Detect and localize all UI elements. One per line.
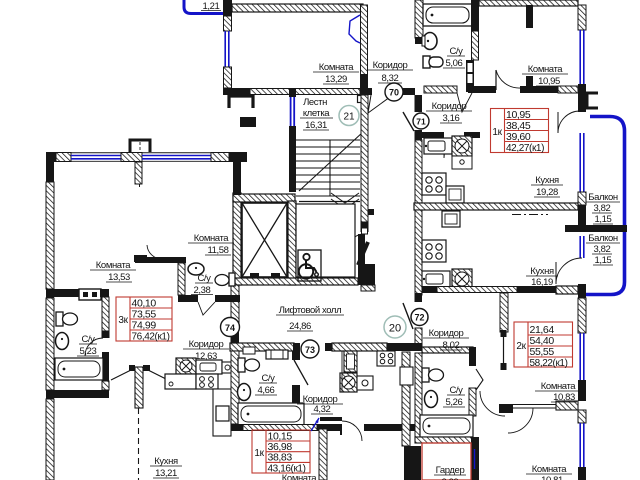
bathtub 5.26 [420,415,473,437]
svg-text:Кухня: Кухня [530,266,554,277]
wall between ap73 room and s/u 5.26 [402,352,410,446]
wall below elevator 1 (west side of hall) [231,285,239,330]
svg-text:1к: 1к [254,448,264,459]
svg-text:10,81: 10,81 [541,475,563,480]
wall right of table 1k [319,429,327,480]
partition to kitchen 13.21 [135,367,143,408]
svg-text:5,23: 5,23 [80,346,97,357]
svg-text:24,86: 24,86 [289,321,311,332]
svg-text:С/у: С/у [449,46,463,57]
svg-text:С/у: С/у [449,385,463,396]
svg-text:8,02: 8,02 [443,340,460,351]
door arc to room 10.95 [496,70,520,88]
svg-text:Коридор: Коридор [429,328,464,339]
stair break diagonal [299,132,363,191]
svg-text:3к: 3к [118,315,128,326]
wall under corridor 3.16 / s/u (y86) [424,86,457,93]
dash-dot line in kitchen 16.19 [512,214,548,216]
kitchen 19.28 sink unit [424,138,452,154]
top wall of left apartment [46,152,56,162]
thin wall + door bottom of corridor 4.32 [320,417,342,421]
svg-text:19,28: 19,28 [536,187,558,198]
balcony door frame [587,93,598,108]
top wall of 2k rooms (y286) [422,286,556,293]
stair direction arrows [331,193,359,209]
red table 1k top (apartment 21) [491,109,549,153]
svg-text:клетка: клетка [303,108,330,119]
wall pier left of room 13.29 [223,0,232,16]
wall pier below balcony door [578,284,586,298]
stove 4-burner ap73 [377,351,395,366]
circle 72 [411,309,428,326]
svg-text:1,15: 1,15 [595,255,612,266]
svg-text:1к: 1к [492,127,502,138]
svg-text:Кухня: Кухня [535,175,559,186]
svg-text:72: 72 [414,313,424,323]
red table 2k [514,322,573,367]
svg-text:38,83: 38,83 [268,452,293,464]
svg-text:Комната: Комната [282,473,318,480]
wall right of bathtub [471,0,479,31]
wall below bathtub [415,437,472,443]
left exterior wall [46,152,54,182]
bathtub 5.23 [55,358,103,380]
svg-text:Комната: Комната [96,260,132,271]
svg-text:10,83: 10,83 [553,392,575,403]
toilet 5.26 [422,368,429,382]
blue leader arrow from table 1k [311,418,319,431]
bottom wall of ap73 bath [231,424,342,431]
window room 10.95 [579,30,581,84]
svg-text:4,32: 4,32 [314,404,331,415]
door leaf from s/u 5.06 [457,93,472,112]
svg-text:Комната: Комната [319,62,355,73]
sink unit 16.19 [422,271,450,287]
towel radiator column [466,60,474,92]
balcony door arc (room 10.95) [558,111,580,133]
window kitchen 16.19 [579,236,581,258]
wall between s/u 5.06 and room 10.95 [526,5,533,28]
svg-text:3,82: 3,82 [594,203,611,214]
right wall with door [292,351,300,360]
stove unit 16.19 (hatched with X) [452,269,472,289]
svg-text:71: 71 [416,117,426,127]
sink 5.26 [425,391,438,408]
svg-text:Кухня: Кухня [154,456,178,467]
wall top of room 13.29 (hatched) [232,4,363,12]
bathroom 5.06 left wall [415,0,423,38]
circle 20 green [384,316,406,338]
elevator shaft walls (hatched) [233,193,241,285]
svg-text:Балкон: Балкон [588,192,618,203]
sink 4.66 [238,384,251,401]
left wall kitchen 16.19 [415,210,422,295]
kitchen 19.28 stove unit (hatched with X) [452,136,472,156]
elevator 2 cabin (accessible) [296,204,355,277]
window kitchen 19.28 [579,133,581,192]
balcony 1.21 rail (blue) [184,0,223,14]
svg-text:С/у: С/у [261,373,275,384]
svg-text:8,32: 8,32 [382,73,399,84]
divider wall between kitchens (y203) [414,203,578,210]
washbasin in 5.06 [423,33,437,50]
balcony rail (blue) upper start [584,117,625,295]
green circle 21 [339,106,359,126]
wall between room 13.29 and corridor 8.32 [361,5,368,88]
svg-text:13,53: 13,53 [108,272,130,283]
svg-text:11,58: 11,58 [207,245,228,256]
circle 74 [221,318,240,337]
red table 3k [116,297,172,341]
svg-text:10,95: 10,95 [538,76,560,87]
toilet in 5.06 [423,56,430,68]
balcony door arc (kitchen 16.19) [556,258,582,284]
circle 73 [301,340,319,358]
entry door frame (P-shape) below H2 [229,96,253,108]
svg-text:5,06: 5,06 [446,58,463,69]
left wall rooms [500,293,508,332]
stair treads [296,140,360,196]
svg-text:С/у: С/у [197,273,211,284]
svg-text:42,27(к1): 42,27(к1) [506,143,544,154]
svg-text:Коридор: Коридор [189,339,224,350]
stair right wall [361,95,368,222]
partition rooms 10.83/10.81 [499,404,513,413]
right wall lower: windows rooms [578,298,586,333]
circle 71 [413,113,429,129]
svg-text:58,22(к1): 58,22(к1) [530,358,568,369]
svg-text:Комната: Комната [194,233,230,244]
wall pier [578,192,586,205]
wall corridor3.16/kitchen divider [422,132,444,138]
svg-text:3,82: 3,82 [594,244,611,255]
svg-text:73: 73 [305,345,315,355]
svg-text:Лифтовой холл: Лифтовой холл [279,305,341,316]
svg-text:74,99: 74,99 [132,320,157,332]
svg-text:Комната: Комната [528,64,564,75]
wall pier [578,84,586,112]
balcony divider wall [565,225,627,232]
wall pier below window [224,67,232,88]
left wall [231,351,239,424]
door room 13.53 [147,245,162,259]
fridge 19.28 [446,186,464,203]
4-burner stove 16.19 [422,240,446,262]
fridge 16.19 [442,211,460,227]
door arcs [480,391,505,416]
svg-text:20: 20 [389,323,401,335]
svg-text:16,31: 16,31 [305,120,327,131]
counter return along corridor 12.63 [213,389,231,436]
svg-text:Лестн: Лестн [303,97,327,108]
svg-text:4,66: 4,66 [258,385,275,396]
toilet 4.66 [238,358,245,372]
svg-text:3,16: 3,16 [443,113,460,124]
svg-text:13,21: 13,21 [155,468,177,479]
svg-text:76,42(к1): 76,42(к1) [132,332,170,343]
black wall segment right of table 1k area [364,424,422,431]
chimney shaft above wall [130,140,150,152]
svg-text:74: 74 [225,323,235,333]
stair window wall [289,88,296,97]
wheelchair symbol [298,250,321,281]
s/u 5.26 left wall [415,353,422,437]
svg-text:Комната: Комната [541,381,577,392]
svg-text:Балкон: Балкон [588,233,618,244]
svg-text:5,26: 5,26 [446,397,463,408]
svg-text:39,60: 39,60 [506,131,531,143]
svg-text:С/у: С/у [81,334,95,345]
svg-text:55,55: 55,55 [530,346,555,358]
counter below [452,156,472,169]
svg-text:1,15: 1,15 [595,214,612,225]
svg-text:21: 21 [343,112,355,123]
double doors beside partition [129,365,135,371]
4-burner stove 19.28 [422,173,446,195]
svg-text:Гардер: Гардер [436,465,465,476]
sink 5.23 [56,333,69,350]
bathtub 4.66 [238,403,304,425]
ap20 entry door leaf [403,303,413,329]
svg-text:Комната: Комната [532,464,568,475]
blue vent mark on wall [349,15,360,43]
circle 70 [385,83,403,101]
svg-text:70: 70 [389,88,399,98]
svg-text:13,29: 13,29 [325,74,347,85]
red table 1k bottom (apartment 73) [252,430,310,473]
right exterior wall pier [578,5,586,30]
blue tick right of wardrobe [474,449,476,469]
wall H2 under room 13.29 [223,88,372,95]
svg-text:2к: 2к [516,341,526,352]
corner wall piece (hall SE) [361,264,375,285]
partition room 13.53 / 11.58 [135,162,142,184]
stair lobby door [362,228,368,234]
door leaf (stair door at circle 70) [368,95,390,113]
toilet 5.23 [56,312,63,326]
left wall of kitchens (x415) [415,95,423,112]
bathtub top [423,4,472,26]
top wall right part (hatched) [479,0,578,6]
window in left wall of room 13.29 [224,31,226,67]
vent boxes on wall [243,347,255,354]
wardrobe red box [422,443,471,480]
elevator 1 cabin with X [242,203,287,277]
svg-text:Коридор: Коридор [373,60,408,71]
svg-text:Коридор: Коридор [432,101,467,112]
